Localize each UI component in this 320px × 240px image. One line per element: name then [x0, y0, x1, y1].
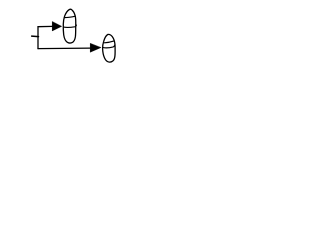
wire vertical branch	[37, 27, 39, 49]
node oval 2 outline	[103, 34, 116, 62]
node oval 1 outline	[63, 9, 76, 43]
wire stub input	[32, 35, 39, 38]
node oval 1 inner chord A	[64, 16, 75, 17]
node oval 2 inner chord B	[103, 45, 115, 48]
arrowhead 2	[90, 43, 101, 52]
wire top horizontal	[38, 25, 53, 27]
wire bottom horizontal	[38, 47, 91, 50]
node oval 1 inner chord B	[64, 25, 77, 27]
arrowhead 1	[52, 22, 61, 31]
node oval 2 inner chord A	[105, 41, 115, 43]
